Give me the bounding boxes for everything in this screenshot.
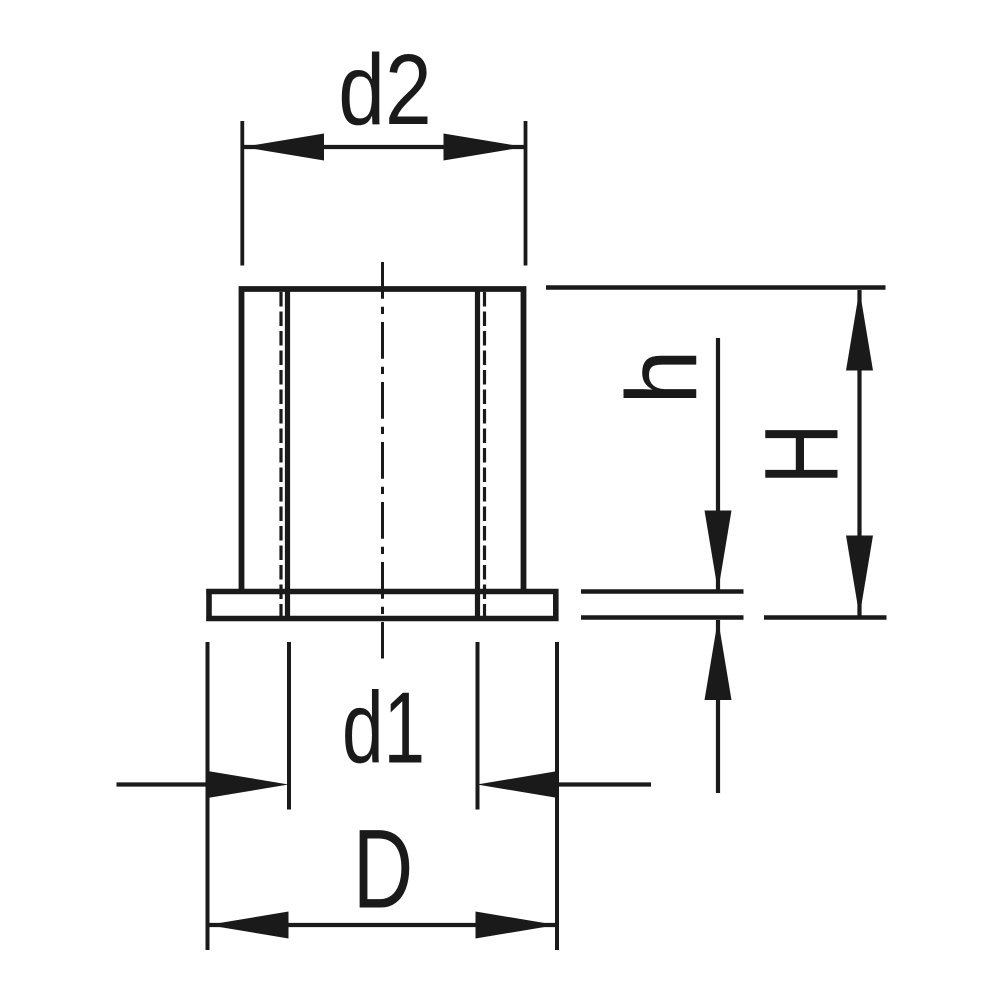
svg-text:d2: d2: [338, 33, 431, 146]
svg-text:D: D: [353, 807, 413, 933]
svg-text:d1: d1: [342, 672, 425, 785]
svg-text:h: h: [606, 349, 718, 405]
svg-text:H: H: [744, 423, 860, 485]
